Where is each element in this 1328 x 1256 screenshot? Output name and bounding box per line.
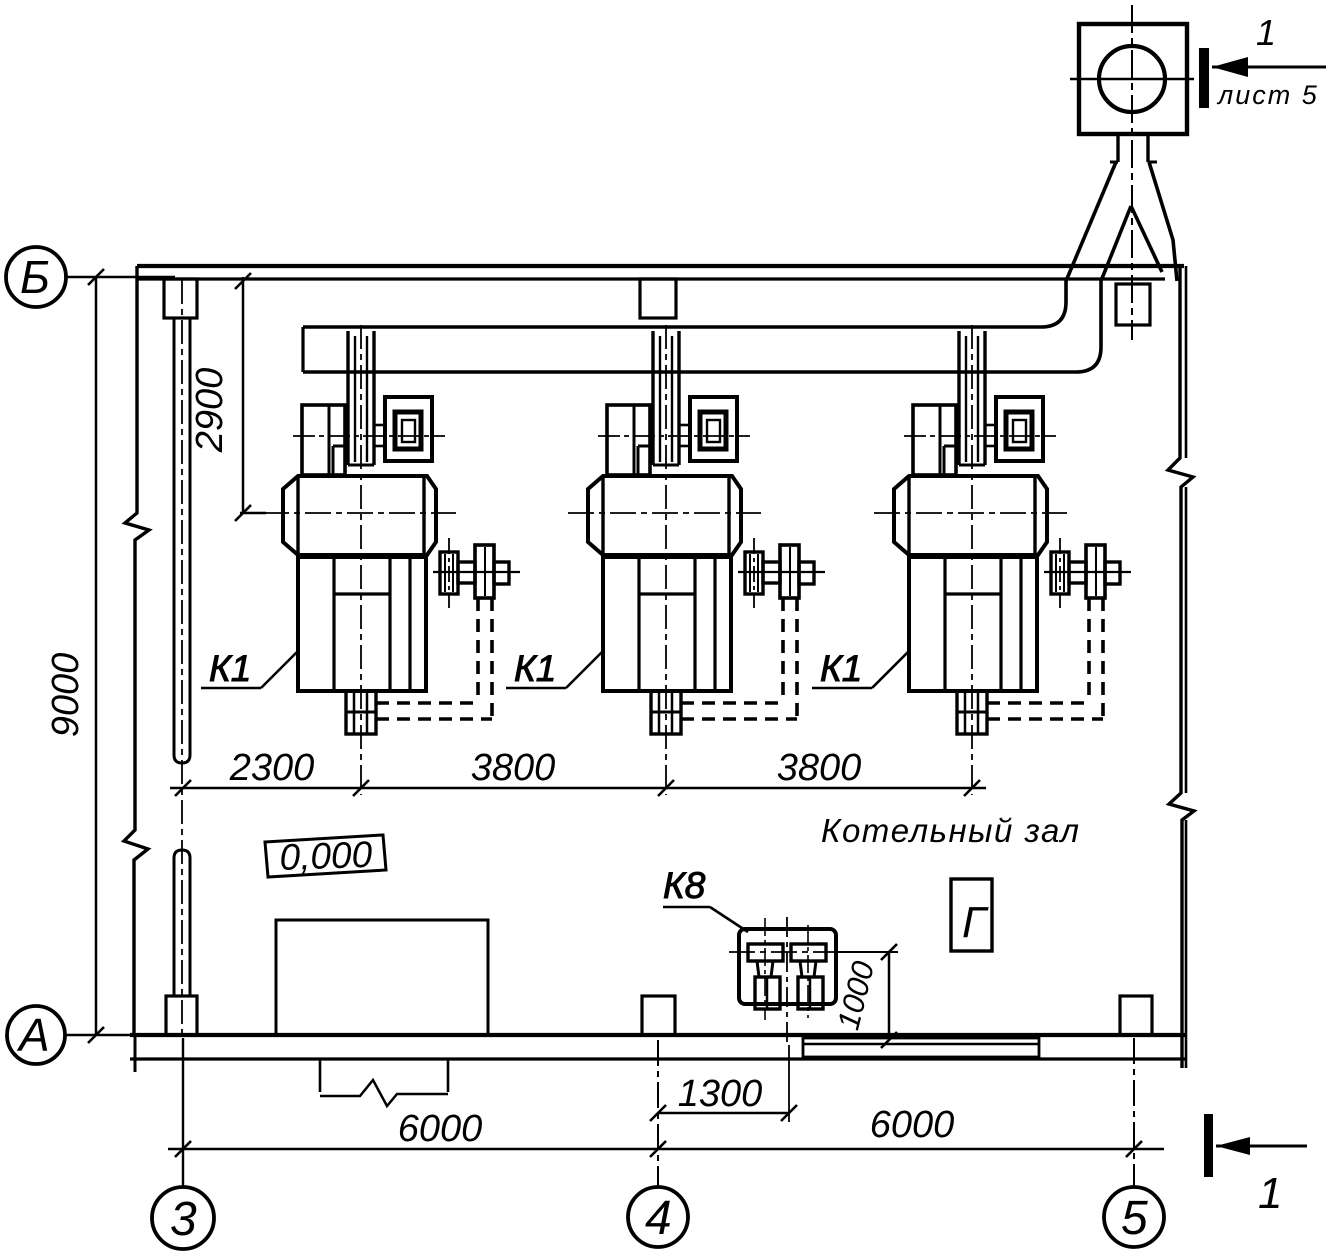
svg-text:Г: Г bbox=[962, 898, 989, 947]
svg-text:5: 5 bbox=[1121, 1192, 1148, 1245]
svg-text:А: А bbox=[16, 1009, 50, 1061]
svg-text:3: 3 bbox=[170, 1193, 197, 1246]
svg-text:3800: 3800 bbox=[471, 747, 556, 789]
svg-text:Котельный зал: Котельный зал bbox=[821, 812, 1081, 849]
svg-text:лист 5: лист 5 bbox=[1216, 80, 1319, 110]
svg-text:6000: 6000 bbox=[870, 1104, 955, 1146]
svg-text:1300: 1300 bbox=[678, 1073, 763, 1115]
svg-text:0,000: 0,000 bbox=[279, 834, 373, 878]
svg-text:2300: 2300 bbox=[229, 747, 315, 789]
svg-text:6000: 6000 bbox=[398, 1108, 483, 1150]
svg-text:4: 4 bbox=[645, 1192, 672, 1245]
svg-text:1: 1 bbox=[1258, 1169, 1282, 1218]
svg-text:2900: 2900 bbox=[189, 368, 231, 454]
svg-text:1: 1 bbox=[1256, 12, 1276, 53]
svg-text:3800: 3800 bbox=[777, 747, 862, 789]
svg-text:Б: Б bbox=[20, 251, 50, 303]
svg-text:9000: 9000 bbox=[45, 653, 87, 738]
svg-text:К8: К8 bbox=[663, 865, 706, 906]
